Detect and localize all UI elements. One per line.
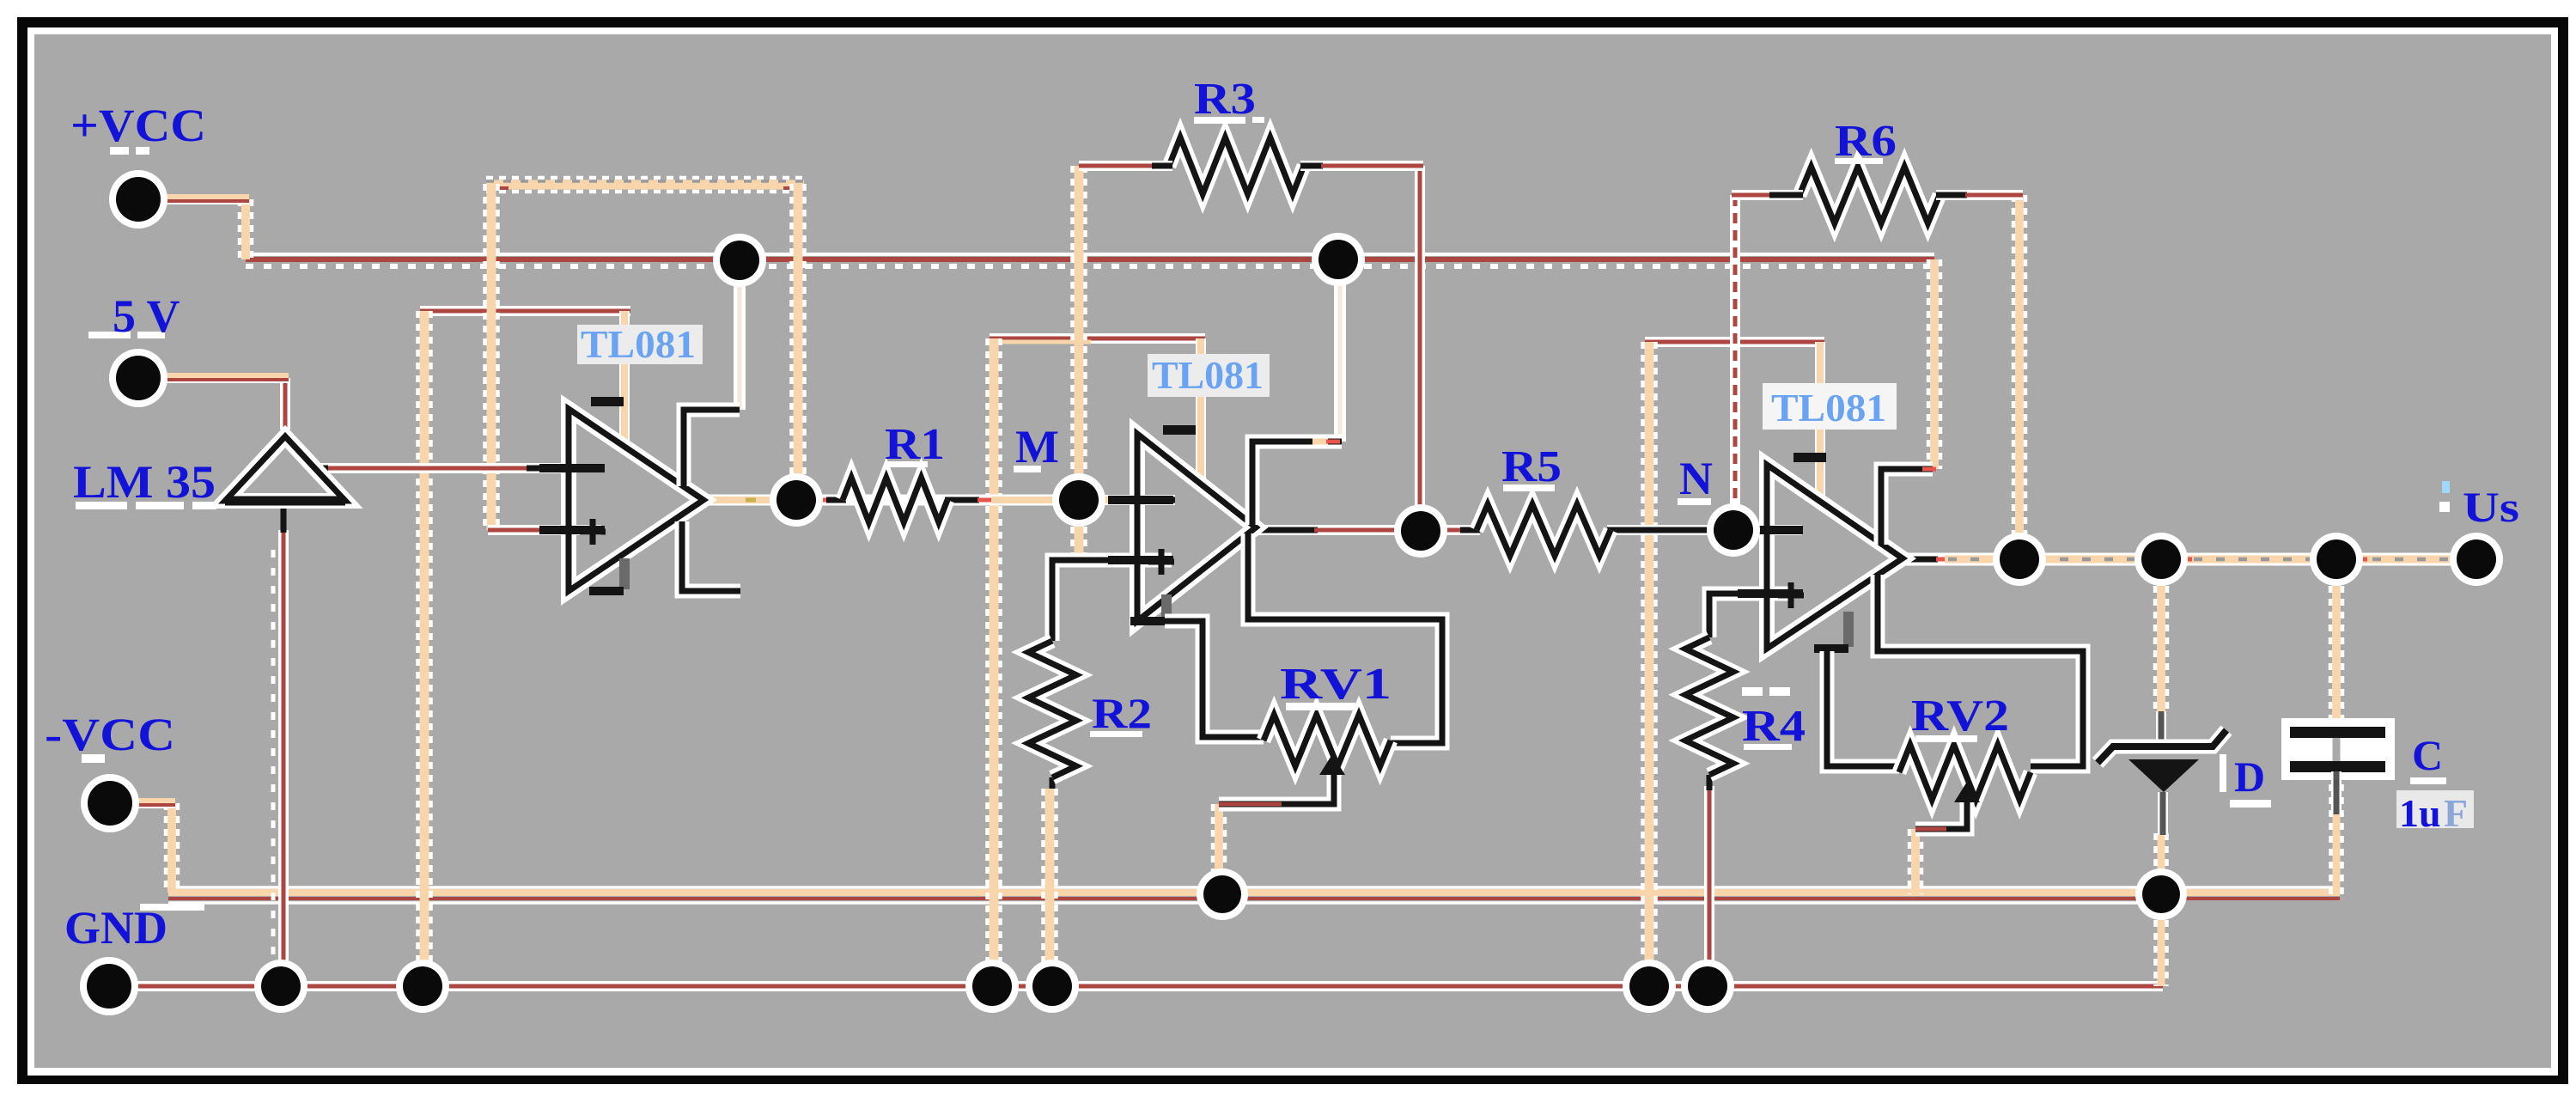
svg-text:R4: R4 — [1742, 702, 1806, 751]
label C value 1uF — [2396, 790, 2474, 835]
resistor R3 — [1169, 137, 1304, 194]
wire R4 bottom to GND (x=1990) — [1704, 775, 1714, 986]
wire GND rail (y=1148) — [99, 981, 2163, 991]
wire U1 follower feedback top (y=215) — [486, 178, 804, 192]
junction RV1 wiper to -VCC rail — [1197, 868, 1248, 920]
wire U1 output / R1 row (y=582) — [707, 495, 1082, 506]
label R4 — [1742, 687, 1806, 751]
label node N — [1678, 453, 1713, 505]
wire U3 hook bottom to RV2 right — [1878, 575, 2083, 766]
resistor R1 — [843, 478, 947, 522]
wire U3 V- bar to RV2 left — [1827, 651, 1899, 766]
wire RV2 wiper drop (x=2230) — [1909, 829, 1921, 894]
wire R6 left lead — [1732, 190, 1803, 200]
label RV2 — [1911, 692, 2009, 742]
wire C bottom horizontal (y=1041) — [2163, 887, 2340, 899]
wire R6 right lead — [1936, 190, 2023, 200]
wire U1 non-inverting feed vertical (x=572) — [485, 184, 498, 530]
junction output / C — [2310, 533, 2363, 586]
wire GND rail end up to D/C junction (x=2516) — [2156, 894, 2167, 986]
wire D top connection (x=2516) — [2155, 560, 2167, 711]
wire U2 hook bottom to RV1 right — [1248, 533, 1442, 743]
label C — [2410, 731, 2446, 784]
label R5 — [1501, 442, 1562, 491]
junction GND U2 branch — [965, 960, 1019, 1013]
wire 5V down to LM35 (x=332) — [280, 378, 290, 443]
svg-text:N: N — [1679, 453, 1713, 504]
wire op-amp U1 supply feed horizontal (y=362) — [420, 306, 630, 316]
wire R3 left lead — [1079, 161, 1172, 171]
wire LM35 output to U1 inverting input (y=545) — [309, 463, 572, 473]
wire C bottom vertical (x=2720) — [2331, 771, 2342, 894]
wire U1 V+ stub (x=727) — [619, 311, 630, 448]
svg-text:D: D — [2234, 753, 2265, 801]
potentiometer RV2 track — [1899, 745, 2031, 800]
wire R2 bottom to GND (x=1222) — [1044, 777, 1057, 986]
wire -VCC corner jog (x=200) — [166, 803, 178, 893]
svg-text:LM 35: LM 35 — [73, 456, 216, 508]
junction GND U1 branch — [396, 960, 449, 1013]
terminal Us — [2450, 533, 2503, 586]
terminal +VCC — [109, 170, 167, 229]
wire R2 top to U2 non-inverting input — [1052, 560, 1172, 641]
svg-text:R2: R2 — [1092, 689, 1152, 737]
sensor LM35 (triangle symbol) — [225, 436, 345, 501]
wire node M to U2 inverting input (y=582) — [1079, 495, 1175, 505]
svg-text:C: C — [2412, 731, 2443, 779]
label U2 TL081 — [1148, 353, 1270, 397]
wire U1 offset pin hook top — [684, 410, 740, 486]
svg-text:TL081: TL081 — [581, 322, 696, 366]
label U3 TL081 — [1763, 383, 1897, 430]
label R1 — [885, 420, 945, 469]
op-amp U2 (TL081) — [1108, 425, 1256, 625]
svg-text:+VCC: +VCC — [70, 100, 206, 151]
wire U1 V+ pin to rail (x=861) — [734, 260, 746, 410]
wire op-amp U3 supply feed horizontal (y=398) — [1645, 337, 1824, 347]
svg-text:R6: R6 — [1835, 117, 1897, 166]
wire node M vertical to R3 (x=1256) — [1073, 166, 1086, 558]
wire U2 V+ stub (x=1398) — [1196, 338, 1206, 478]
wire U3 output rail to Us (y=651) — [1900, 553, 2479, 566]
resistor R2 — [1028, 641, 1076, 777]
svg-text:R3: R3 — [1194, 75, 1256, 124]
label node M — [1014, 421, 1059, 472]
terminal GND — [80, 957, 138, 1015]
wire RV1 wiper lead — [1219, 754, 1345, 804]
wire R6 right lead down to output (x=2351) — [2013, 195, 2025, 560]
label R3 — [1194, 75, 1264, 124]
resistor R6 — [1800, 167, 1940, 223]
resistor R4 — [1685, 637, 1733, 775]
wire RV2 wiper lead — [1915, 782, 1980, 829]
junction GND U3 branch — [1623, 960, 1676, 1013]
junction U1 V+ on VCC rail — [713, 234, 766, 287]
junction U2 V+ on VCC rail — [1312, 233, 1365, 286]
wire C top connection (x=2720) — [2330, 560, 2342, 727]
junction output / D — [2134, 533, 2188, 586]
svg-text:Us: Us — [2463, 483, 2519, 531]
junction U1 output — [770, 473, 823, 527]
wire R3 right lead down to U2 output (x=1653) — [1415, 166, 1425, 529]
svg-text:GND: GND — [64, 902, 167, 954]
svg-text:RV2: RV2 — [1911, 692, 2009, 740]
wire -VCC terminal lead (y=935) — [110, 801, 175, 805]
svg-text:F: F — [2444, 791, 2468, 835]
junction U2 output / R3 — [1394, 504, 1447, 558]
junction output / R6 — [1993, 533, 2046, 586]
wire VCC rail end down to U3 (x=2252) — [1928, 259, 1940, 469]
label U1 TL081 — [577, 322, 703, 366]
capacitor C — [2281, 718, 2395, 814]
wire node N to U3 inverting input — [1733, 525, 1802, 535]
op-amp U3 (TL081) — [1738, 453, 1903, 653]
wire R3 right lead — [1300, 161, 1423, 171]
svg-text:R5: R5 — [1501, 442, 1562, 491]
label +VCC — [70, 100, 206, 155]
wire U3 V+ stub (x=2119) — [1815, 342, 1825, 504]
label -VCC — [45, 709, 175, 763]
svg-text:TL081: TL081 — [1771, 386, 1886, 430]
zener diode D — [2098, 711, 2226, 835]
resistor R5 — [1477, 504, 1611, 556]
junction D/C bottom to GND — [2135, 868, 2187, 920]
label 5 V — [88, 290, 180, 342]
wire +VCC rail (net VCC, y=302) — [246, 254, 1934, 266]
junction GND R2 — [1026, 960, 1079, 1013]
wire R5 left lead — [1421, 525, 1480, 535]
potentiometer RV1 track — [1264, 715, 1391, 766]
wire U2 offset pin hook top — [1252, 442, 1342, 525]
svg-text:M: M — [1015, 421, 1059, 472]
junction GND R4 — [1681, 960, 1734, 1013]
label GND — [64, 902, 204, 954]
wire R5 right lead to node N — [1607, 525, 1739, 535]
label D — [2220, 753, 2271, 808]
wire U2 V- bar to RV1 left — [1165, 621, 1264, 737]
wire U2 output (y=617) — [1256, 525, 1426, 535]
node N — [1707, 503, 1760, 557]
svg-text:5 V: 5 V — [113, 290, 180, 342]
wire U2 ground branch vertical (x=1157) — [988, 338, 1001, 986]
junction GND LM35 — [254, 960, 308, 1013]
wire U1 offset pin hook bottom — [682, 521, 740, 591]
wire RV1 wiper drop (x=1419) — [1213, 804, 1225, 894]
wire U3 offset pin hook top — [1881, 469, 1936, 545]
wire U2 V+ pin to rail (x=1560) — [1334, 259, 1346, 442]
svg-text:-VCC: -VCC — [45, 709, 175, 760]
wire R6 left lead down to node N (x=2020) — [1730, 195, 1740, 528]
wire R4 top to U3 non-inverting input — [1709, 594, 1793, 637]
wire +VCC corner jog (x=286) — [240, 199, 252, 259]
svg-text:1u: 1u — [2399, 791, 2441, 835]
wire U1 output feedback vertical (x=929) — [792, 184, 805, 500]
wire LM35 ground down (x=330) — [273, 499, 283, 986]
wire U3 ground branch vertical (x=1920) — [1643, 342, 1656, 986]
wire U1 ground branch vertical (x=494) — [418, 311, 431, 986]
terminal -VCC — [81, 774, 139, 832]
label RV1 — [1280, 660, 1392, 710]
wire +VCC terminal lead (y=232) — [138, 197, 249, 201]
svg-text:TL081: TL081 — [1152, 353, 1264, 397]
node M — [1052, 473, 1105, 527]
svg-text:RV1: RV1 — [1280, 660, 1392, 709]
label R6 — [1835, 117, 1897, 166]
label Us — [2439, 481, 2519, 531]
wire -VCC distribution pair (y=1039..1046) — [168, 887, 2163, 903]
wire D bottom connection (x=2516) — [2156, 833, 2167, 894]
label R2 — [1090, 689, 1152, 737]
op-amp U1 (TL081) — [539, 397, 703, 595]
terminal 5V — [109, 349, 167, 407]
label LM 35 — [73, 456, 216, 509]
wire U1 non-inverting input lead (y=617) — [488, 525, 601, 535]
wire op-amp U2 supply feed horizontal (y=394) — [990, 338, 1205, 342]
svg-text:R1: R1 — [885, 420, 945, 469]
wire 5V terminal lead (y=440) — [138, 375, 289, 380]
